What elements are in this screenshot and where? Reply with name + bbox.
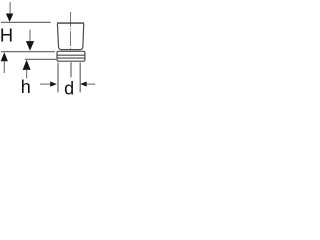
dimension d: right arrowhead (left-pointing) <box>80 82 87 87</box>
dimension h: upper arrowhead (down) <box>26 41 34 51</box>
dimension h: lower arrow tail <box>26 69 28 78</box>
dimension h: upper arrow tail <box>29 30 31 42</box>
product flange: lower rib line <box>57 57 84 59</box>
dimension h: lower arrowhead (up) <box>23 60 31 70</box>
product flange: outer rounded box <box>57 51 85 61</box>
svg-text:d: d <box>64 78 74 98</box>
dimension H: bottom arrowhead (up) <box>1 52 8 61</box>
dimension d: right tail <box>87 83 96 85</box>
centerline (dash-dot) <box>70 12 72 51</box>
product flange: upper rib line <box>57 54 84 56</box>
svg-text:h: h <box>21 77 31 97</box>
dimension d: left arrowhead (right-pointing) <box>50 81 57 86</box>
extension line: left (outlet edge) <box>57 63 59 93</box>
dimension line: top reference (product top level) <box>1 21 51 23</box>
product cap: top edge <box>57 22 84 24</box>
dimension d: left tail <box>40 83 50 85</box>
dimension line: flange bottom level <box>25 58 56 60</box>
extension line: right (outlet edge) <box>79 63 81 93</box>
dimension line: flange top level <box>1 51 55 53</box>
dimension H: bottom arrow tail <box>3 61 5 73</box>
product cap: tapered body outline <box>57 24 83 50</box>
svg-text:H: H <box>0 24 13 45</box>
extension line: center stub below product <box>70 62 72 77</box>
dimension H: top arrow tail <box>9 2 11 14</box>
dimension H: top arrowhead (down) <box>6 14 13 23</box>
